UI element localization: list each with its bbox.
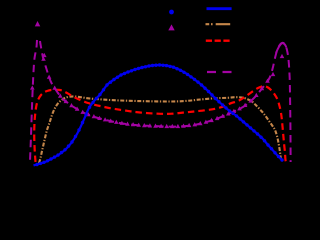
legend line: red dashed <box>206 40 231 42</box>
legend line: purple long dash <box>207 71 232 73</box>
legend line: tan dash-dot-dot <box>206 23 232 25</box>
legend marker: purple triangle <box>168 24 174 30</box>
curve: tan dash-dot-dot density profile <box>39 96 281 163</box>
curve: red dashed density profile <box>34 86 286 162</box>
curve: purple spike left branch <box>30 40 37 163</box>
curve: purple long-dashed density profile <box>40 41 291 162</box>
blue dot markers <box>35 63 283 166</box>
purple right peak apex solid cap <box>276 43 286 53</box>
legend line: blue solid <box>207 7 232 10</box>
purple triangle markers <box>30 21 284 128</box>
curve: blue solid density profile <box>34 65 284 166</box>
legend marker: blue circle <box>169 10 174 15</box>
